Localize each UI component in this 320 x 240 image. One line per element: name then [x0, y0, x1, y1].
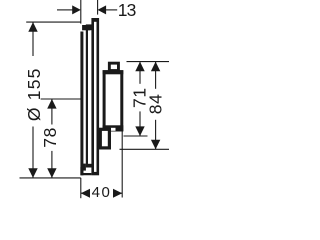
dim 84: up arrowhead [151, 62, 160, 72]
dim 40: extension line left [80, 178, 82, 198]
dim O155: bottom extension line [20, 177, 81, 179]
dim 40: dimension line left segment [81, 192, 90, 194]
dim 78: dimension line lower segment [51, 151, 53, 178]
handle lever slab (front) [80, 32, 83, 176]
dim 13: right arrowhead [98, 5, 107, 14]
handle bottom front step [80, 167, 91, 175]
dim 71: down arrowhead [135, 126, 144, 136]
svg-text:40: 40 [92, 184, 112, 200]
handle body (side view) [86, 24, 93, 167]
valve body top cap (thick) [103, 70, 124, 74]
dim 71: dimension line upper segment [139, 62, 141, 84]
dim 84: bottom extension line [120, 148, 170, 150]
dim 13: tail left [57, 9, 73, 11]
dim 78: dimension line upper segment [51, 99, 53, 125]
handle grip ring bottom step [82, 164, 86, 171]
wall line / dim 13 extension right [97, 0, 99, 15]
dim 13: extension line left (handle front face) [80, 0, 82, 24]
valve body bottom cap (thick) [103, 125, 124, 131]
valve top notch (cartridge stem) [109, 63, 118, 70]
dim 71: dimension line lower segment [139, 111, 141, 136]
dim 84: dimension line lower segment [155, 120, 157, 150]
dim O155: dimension line upper segment [32, 22, 34, 56]
svg-text:13: 13 [118, 0, 136, 20]
dim 78: up arrowhead [47, 99, 56, 109]
dim 13: tail right [106, 9, 117, 11]
dim 40: left arrowhead [81, 189, 90, 198]
svg-text:Ø 155: Ø 155 [24, 67, 44, 121]
dim 40: right arrowhead [113, 189, 122, 198]
handle grip ring top step [82, 25, 90, 30]
dim 84: down arrowhead [151, 140, 160, 150]
dim 71: up arrowhead [135, 62, 144, 72]
svg-text:84: 84 [146, 93, 166, 114]
dim 13: left arrowhead [72, 5, 81, 14]
dim O155: down arrowhead [28, 168, 37, 178]
dim 40: dimension line right segment [113, 192, 122, 194]
dim O155: top extension line [26, 21, 81, 23]
dim 71: bottom extension line [124, 135, 148, 137]
svg-text:78: 78 [40, 127, 60, 148]
valve body (behind wall) [104, 72, 122, 130]
dim O155: up arrowhead [28, 22, 37, 32]
escutcheon plate (side view) [91, 18, 99, 175]
dim 84: dimension line upper segment [155, 62, 157, 89]
dim 71/84: top extension line (notch top) [127, 61, 170, 63]
lower connection box [100, 129, 109, 148]
valve bottom cap white notch [110, 128, 115, 131]
dim 78: down arrowhead [47, 168, 56, 178]
dim 78: centre axis extension line [41, 98, 81, 100]
dim O155: dimension line lower segment [32, 127, 34, 178]
dim 40: extension line right (valve back face) [121, 130, 123, 198]
